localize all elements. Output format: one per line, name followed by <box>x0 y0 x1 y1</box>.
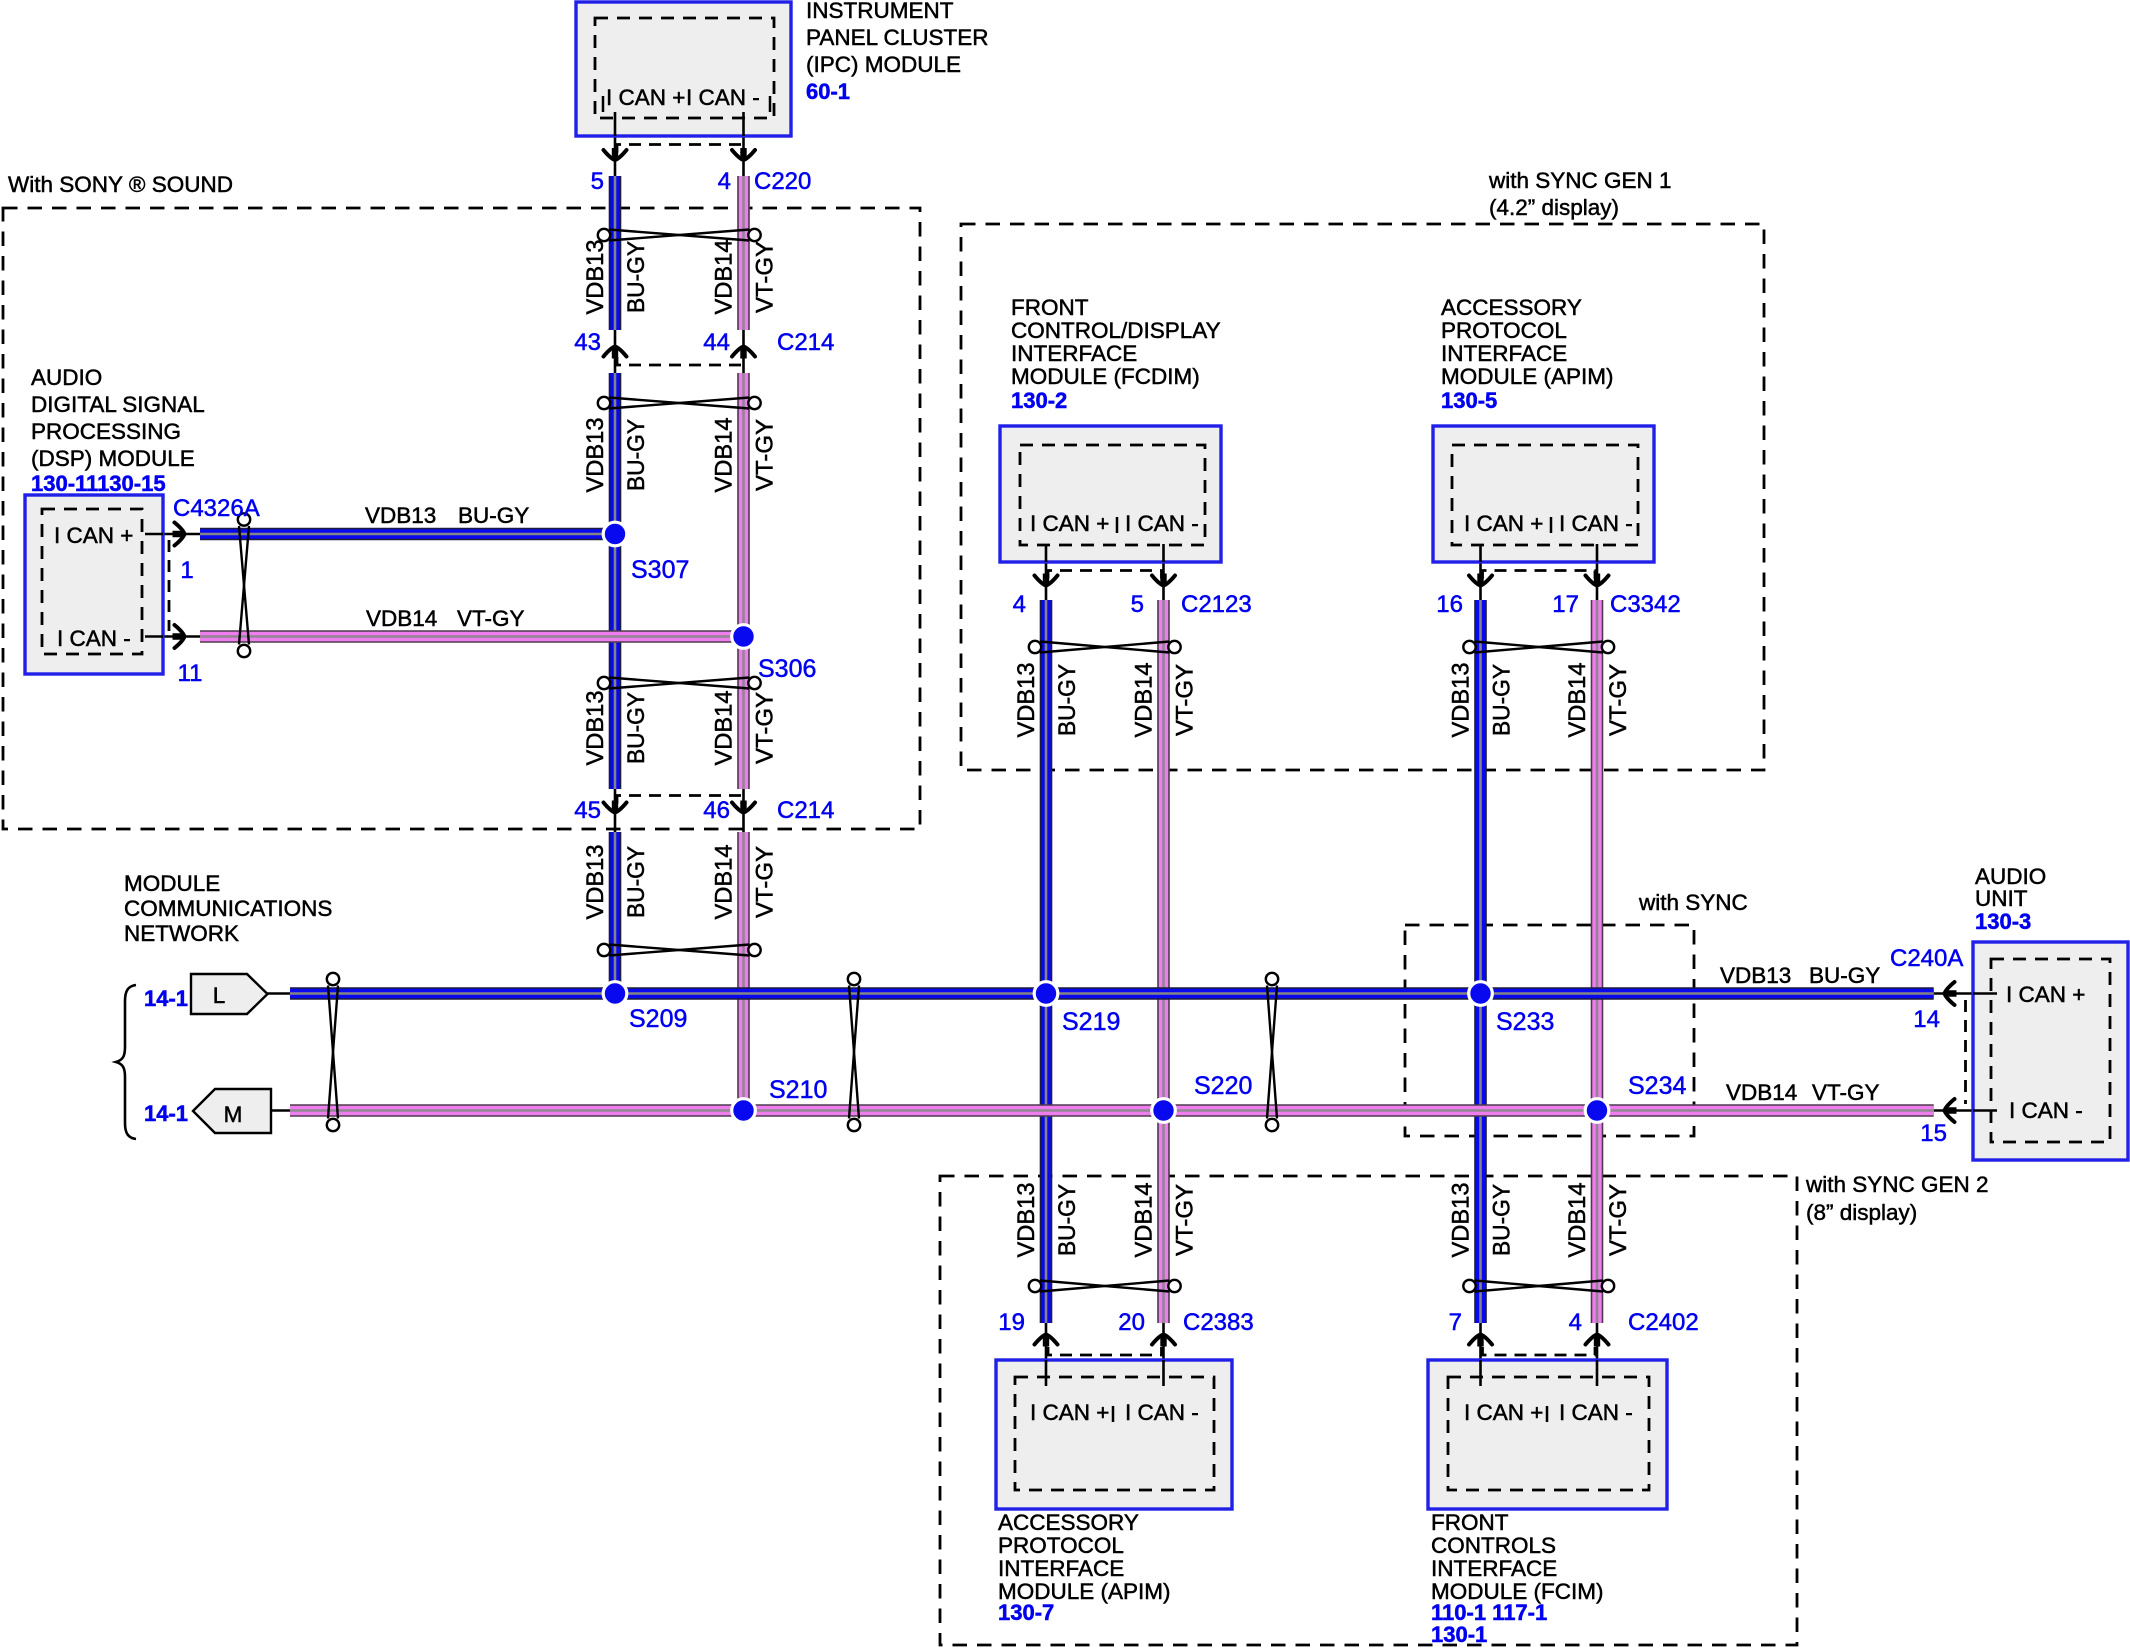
svg-text:CONTROL/DISPLAY: CONTROL/DISPLAY <box>1011 318 1221 343</box>
brace 14-1 <box>116 985 136 1139</box>
wire VDB14 vertical C214-46 to S210 <box>737 832 750 1111</box>
AUDIO UNIT pin ticks <box>1998 985 2001 1002</box>
svg-text:VT-GY: VT-GY <box>752 692 779 764</box>
svg-text:I CAN +: I CAN + <box>1464 511 1543 536</box>
svg-text:CONTROLS: CONTROLS <box>1431 1533 1556 1558</box>
svg-text:INTERFACE: INTERFACE <box>1441 341 1567 366</box>
connector C4326A bracket <box>168 540 171 631</box>
svg-text:S234: S234 <box>1628 1072 1686 1100</box>
svg-text:AUDIO: AUDIO <box>31 365 102 390</box>
svg-text:VDB14: VDB14 <box>1564 663 1591 738</box>
svg-text:BU-GY: BU-GY <box>1489 1184 1516 1256</box>
wire VDB14 vertical C214-44 to C214-46 (S306) <box>737 373 750 789</box>
twisted pair bus mid-left <box>848 973 860 1131</box>
svg-text:PROTOCOL: PROTOCOL <box>1441 318 1567 343</box>
svg-text:C2402: C2402 <box>1628 1309 1699 1336</box>
splice S210 <box>732 1099 756 1123</box>
svg-text:VDB14: VDB14 <box>366 606 437 631</box>
svg-text:46: 46 <box>703 797 730 824</box>
svg-text:14: 14 <box>1913 1006 1940 1033</box>
svg-text:BU-GY: BU-GY <box>623 419 650 491</box>
svg-text:(IPC) MODULE: (IPC) MODULE <box>806 52 961 77</box>
svg-text:44: 44 <box>703 329 730 356</box>
module APIM(130-7) box <box>996 1360 1232 1509</box>
connector C2383 bracket <box>1048 1347 1162 1355</box>
svg-text:VDB13: VDB13 <box>582 845 609 920</box>
C214 pin leads col B <box>742 330 745 373</box>
svg-text:5: 5 <box>1131 591 1144 618</box>
svg-text:130-7: 130-7 <box>998 1600 1054 1625</box>
svg-text:VT-GY: VT-GY <box>752 241 779 313</box>
svg-text:(4.2” display): (4.2” display) <box>1489 195 1619 220</box>
svg-text:BU-GY: BU-GY <box>623 692 650 764</box>
svg-text:130-3: 130-3 <box>1975 909 2031 934</box>
svg-text:VDB13: VDB13 <box>582 240 609 315</box>
svg-text:S307: S307 <box>631 556 689 584</box>
wire VDB13 vertical APIM pin16 to FCIM pin7 <box>1474 600 1487 1323</box>
svg-text:VDB14: VDB14 <box>711 418 738 493</box>
svg-text:VT-GY: VT-GY <box>752 419 779 491</box>
svg-text:M: M <box>224 1102 243 1127</box>
svg-text:DIGITAL SIGNAL: DIGITAL SIGNAL <box>31 392 205 417</box>
pin ticks inside modules <box>602 96 605 112</box>
svg-text:1: 1 <box>180 557 193 584</box>
svg-text:(DSP) MODULE: (DSP) MODULE <box>31 446 195 471</box>
svg-text:I CAN +: I CAN + <box>1464 1400 1543 1425</box>
svg-text:VT-GY: VT-GY <box>1812 1080 1880 1105</box>
twisted pair below S306 <box>598 677 761 689</box>
svg-text:VDB14: VDB14 <box>711 240 738 315</box>
svg-text:BU-GY: BU-GY <box>1054 664 1081 736</box>
svg-text:VT-GY: VT-GY <box>457 606 525 631</box>
svg-text:INTERFACE: INTERFACE <box>998 1556 1124 1581</box>
svg-text:with SYNC: with SYNC <box>1638 890 1748 915</box>
svg-text:I CAN -: I CAN - <box>57 626 131 651</box>
svg-text:VT-GY: VT-GY <box>1605 664 1632 736</box>
wire VDB13 vertical FCDIM pin4 to APIM(130-7) pin19 <box>1040 600 1053 1323</box>
svg-text:C214: C214 <box>777 329 834 356</box>
DSP pin leads <box>145 533 200 536</box>
connector C2123 bracket <box>1048 571 1162 579</box>
APIM pin leads <box>1479 544 1482 600</box>
C214 pin leads col A <box>614 330 617 373</box>
svg-text:I CAN -: I CAN - <box>1125 1400 1199 1425</box>
svg-text:11: 11 <box>178 660 203 687</box>
svg-text:VDB13: VDB13 <box>582 691 609 766</box>
L tag lead <box>268 992 291 995</box>
svg-text:130-11130-15: 130-11130-15 <box>31 471 166 496</box>
svg-text:4: 4 <box>718 168 731 195</box>
wire VDB14 VT-GY vertical IPC pin4 to C214 <box>737 176 750 330</box>
AUDIO internal pin leads <box>1973 992 1997 995</box>
arrows C3342 <box>1469 574 1492 589</box>
svg-text:VDB14: VDB14 <box>1131 663 1158 738</box>
svg-text:BU-GY: BU-GY <box>1054 1184 1081 1256</box>
connector C214 bracket (pins 45/46) <box>617 796 742 804</box>
twisted pair IPC drop upper <box>598 229 761 241</box>
svg-text:UNIT: UNIT <box>1975 886 2028 911</box>
FCIM pin leads <box>1479 1323 1482 1386</box>
twisted pair bus left <box>327 973 339 1131</box>
svg-text:VDB14: VDB14 <box>1564 1183 1591 1258</box>
svg-text:BU-GY: BU-GY <box>623 846 650 918</box>
bottom APIM internal pin leads <box>1045 1360 1048 1386</box>
wire VDB13 BU-GY vertical IPC pin5 to C214 <box>609 176 622 330</box>
svg-text:VDB14: VDB14 <box>711 691 738 766</box>
svg-text:BU-GY: BU-GY <box>623 241 650 313</box>
svg-text:INTERFACE: INTERFACE <box>1011 341 1137 366</box>
svg-text:14-1: 14-1 <box>144 986 188 1011</box>
region: with SYNC GEN 2 dashed box <box>940 1176 1797 1645</box>
svg-text:VDB13: VDB13 <box>1448 1183 1475 1258</box>
wire VDB13 vertical C214-45 to S209 <box>609 832 622 994</box>
svg-text:FRONT: FRONT <box>1431 1510 1509 1535</box>
svg-text:I CAN -: I CAN - <box>686 85 760 110</box>
svg-text:S209: S209 <box>629 1005 687 1033</box>
splice S306 <box>732 625 756 649</box>
svg-text:VT-GY: VT-GY <box>1605 1184 1632 1256</box>
svg-text:MODULE (FCDIM): MODULE (FCDIM) <box>1011 364 1200 389</box>
wire VDB13 BU-GY from DSP to S307 <box>200 528 615 541</box>
svg-text:(8” display): (8” display) <box>1806 1200 1917 1225</box>
wire VDB14 vertical FCDIM pin5 to APIM(130-7) pin20 <box>1157 600 1170 1323</box>
svg-text:20: 20 <box>1118 1309 1145 1336</box>
module FCIM box <box>1428 1360 1667 1509</box>
svg-text:VDB13: VDB13 <box>582 418 609 493</box>
svg-text:with SYNC GEN 2: with SYNC GEN 2 <box>1805 1172 1989 1197</box>
svg-text:S306: S306 <box>758 655 816 683</box>
svg-text:60-1: 60-1 <box>806 79 850 104</box>
bottom APIM pin leads <box>1045 1323 1048 1386</box>
svg-text:VDB13: VDB13 <box>1013 663 1040 738</box>
splice S234 <box>1585 1099 1609 1123</box>
svg-text:I CAN +: I CAN + <box>606 85 685 110</box>
svg-text:C240A: C240A <box>1890 945 1963 972</box>
svg-text:with SYNC GEN 1: with SYNC GEN 1 <box>1488 168 1672 193</box>
node M tag <box>193 1089 271 1133</box>
svg-text:VDB14: VDB14 <box>1726 1080 1797 1105</box>
svg-text:19: 19 <box>998 1309 1025 1336</box>
svg-text:C214: C214 <box>777 797 834 824</box>
twisted pair above APIM 130-7 <box>1029 1280 1181 1292</box>
svg-text:S210: S210 <box>769 1076 827 1104</box>
region: with SYNC dashed box <box>1405 925 1694 1136</box>
svg-text:4: 4 <box>1013 591 1026 618</box>
svg-text:ACCESSORY: ACCESSORY <box>1441 295 1582 320</box>
svg-text:ACCESSORY: ACCESSORY <box>998 1510 1139 1535</box>
wire VDB14 VT-GY from DSP to S306 <box>200 630 744 643</box>
module APIM(130-5) box <box>1433 426 1654 562</box>
svg-text:I CAN -: I CAN - <box>1559 511 1633 536</box>
M tag lead <box>271 1109 290 1112</box>
node L tag <box>191 974 268 1014</box>
svg-text:INTERFACE: INTERFACE <box>1431 1556 1557 1581</box>
svg-text:PANEL CLUSTER: PANEL CLUSTER <box>806 25 989 50</box>
svg-text:VT-GY: VT-GY <box>1172 664 1199 736</box>
arrows C2383 <box>1035 1332 1058 1347</box>
svg-text:VT-GY: VT-GY <box>752 846 779 918</box>
svg-text:L: L <box>213 983 226 1008</box>
svg-text:C2383: C2383 <box>1183 1309 1254 1336</box>
FCIM internal pin leads <box>1479 1360 1482 1386</box>
svg-text:14-1: 14-1 <box>144 1101 188 1126</box>
arrows C220 <box>604 148 627 163</box>
svg-text:MODULE: MODULE <box>124 871 220 896</box>
connector C214 bracket (pins 43/44) <box>617 357 742 365</box>
svg-text:VDB13: VDB13 <box>365 503 436 528</box>
svg-text:15: 15 <box>1920 1120 1947 1147</box>
region: with SYNC GEN 1 dashed box <box>961 224 1764 770</box>
svg-text:C2123: C2123 <box>1181 591 1252 618</box>
wire VDB13 L bus <box>290 987 1934 1000</box>
DSP internal pin leads <box>145 533 163 536</box>
splice S219 <box>1034 982 1058 1006</box>
svg-text:MODULE (APIM): MODULE (APIM) <box>1441 364 1614 389</box>
connector C2402 bracket <box>1483 1347 1596 1355</box>
svg-text:I CAN +: I CAN + <box>54 523 133 548</box>
svg-text:VDB14: VDB14 <box>1131 1183 1158 1258</box>
svg-text:I CAN -: I CAN - <box>1559 1400 1633 1425</box>
svg-text:S220: S220 <box>1194 1072 1252 1100</box>
svg-text:130-5: 130-5 <box>1441 388 1497 413</box>
svg-text:I CAN +: I CAN + <box>2006 982 2085 1007</box>
svg-text:With SONY ® SOUND: With SONY ® SOUND <box>8 172 233 197</box>
splice S220 <box>1152 1099 1176 1123</box>
svg-text:I CAN -: I CAN - <box>2009 1098 2083 1123</box>
wire VDB14 M bus <box>290 1104 1934 1117</box>
svg-text:7: 7 <box>1449 1309 1462 1336</box>
wire VDB14 vertical APIM pin17 to FCIM pin4 <box>1591 600 1604 1323</box>
module AUDIO UNIT box <box>1973 942 2128 1160</box>
svg-text:17: 17 <box>1552 591 1579 618</box>
svg-text:5: 5 <box>591 168 604 195</box>
svg-text:VDB14: VDB14 <box>711 845 738 920</box>
twisted pair below C214-43 <box>598 397 761 409</box>
svg-text:VDB13: VDB13 <box>1720 963 1791 988</box>
arrows C4326A <box>173 523 188 546</box>
FCDIM internal pin leads <box>1045 544 1048 562</box>
svg-text:I CAN +: I CAN + <box>1030 1400 1109 1425</box>
svg-text:INSTRUMENT: INSTRUMENT <box>806 0 954 23</box>
svg-text:16: 16 <box>1436 591 1463 618</box>
svg-text:FRONT: FRONT <box>1011 295 1089 320</box>
splice S233 <box>1469 982 1493 1006</box>
svg-text:I CAN -: I CAN - <box>1125 511 1199 536</box>
arrows C240A <box>1942 982 1957 1005</box>
svg-text:C3342: C3342 <box>1610 591 1681 618</box>
twisted pair above S209 <box>598 944 761 956</box>
svg-text:130-2: 130-2 <box>1011 388 1067 413</box>
svg-text:VDB13: VDB13 <box>1013 1183 1040 1258</box>
svg-text:I CAN +: I CAN + <box>1030 511 1109 536</box>
module FCDIM box <box>1000 426 1221 562</box>
IPC internal pin leads <box>614 112 617 136</box>
region: With SONY SOUND dashed box <box>3 208 920 829</box>
svg-text:4: 4 <box>1569 1309 1582 1336</box>
svg-text:COMMUNICATIONS: COMMUNICATIONS <box>124 896 332 921</box>
module IPC box <box>576 2 791 136</box>
svg-text:C4326A: C4326A <box>173 495 260 522</box>
svg-text:BU-GY: BU-GY <box>1489 664 1516 736</box>
svg-text:130-1: 130-1 <box>1431 1622 1487 1647</box>
splice S209 <box>603 982 627 1006</box>
svg-text:S219: S219 <box>1062 1008 1120 1036</box>
svg-text:PROCESSING: PROCESSING <box>31 419 181 444</box>
twisted pair FCDIM drop <box>1029 641 1181 653</box>
connector C220 bracket <box>617 145 742 153</box>
wire VDB13 vertical C214-43 to C214-45 (S307) <box>609 373 622 789</box>
svg-text:VT-GY: VT-GY <box>1172 1184 1199 1256</box>
svg-text:NETWORK: NETWORK <box>124 921 239 946</box>
svg-text:C220: C220 <box>754 168 811 195</box>
FCDIM pin leads <box>1045 544 1048 600</box>
arrows C214 43/44 <box>604 344 627 359</box>
arrows C2123 <box>1035 574 1058 589</box>
arrows C2402 <box>1469 1332 1492 1347</box>
svg-text:45: 45 <box>574 797 601 824</box>
svg-text:BU-GY: BU-GY <box>458 503 529 528</box>
svg-text:43: 43 <box>574 329 601 356</box>
arrows C214 45/46 <box>604 801 627 816</box>
IPC pin leads <box>614 112 617 176</box>
module DSP box <box>25 495 163 674</box>
APIM internal pin leads <box>1479 544 1482 562</box>
AUDIO UNIT pin leads <box>1934 992 1997 995</box>
twisted pair APIM drop <box>1463 641 1614 653</box>
connector C3342 bracket <box>1483 571 1596 579</box>
splice S307 <box>603 522 627 546</box>
twisted pair above FCIM <box>1463 1280 1614 1292</box>
svg-text:S233: S233 <box>1496 1008 1554 1036</box>
twisted pair bus mid-right <box>1266 973 1278 1131</box>
svg-text:VDB13: VDB13 <box>1448 663 1475 738</box>
svg-text:PROTOCOL: PROTOCOL <box>998 1533 1124 1558</box>
twisted pair DSP leads <box>238 513 250 657</box>
svg-text:BU-GY: BU-GY <box>1809 963 1880 988</box>
connector C240A bracket <box>1964 1000 1967 1104</box>
